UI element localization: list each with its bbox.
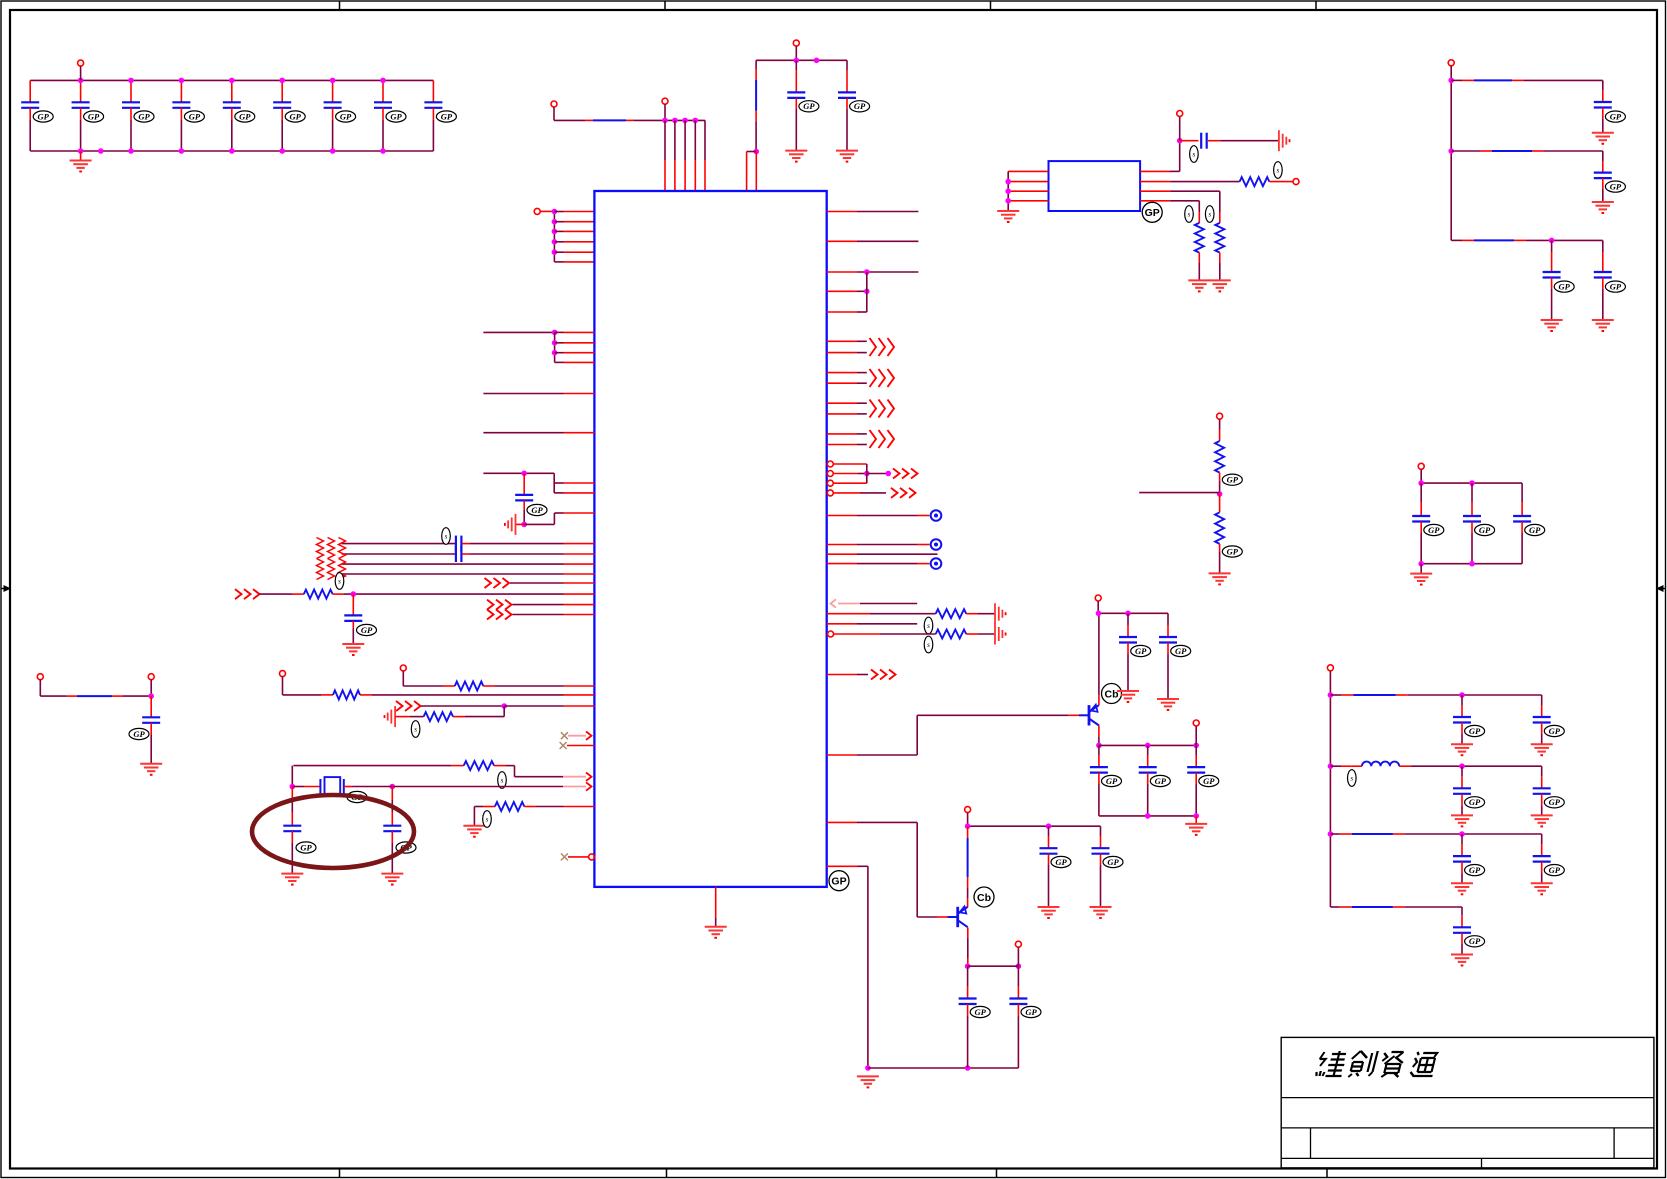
svg-text:s: s [414, 726, 417, 734]
svg-text:s: s [486, 816, 489, 824]
svg-text:GP: GP [138, 111, 150, 121]
svg-text:GP: GP [300, 842, 312, 852]
svg-text:Cb: Cb [977, 892, 991, 904]
svg-text:GP: GP [340, 111, 352, 121]
svg-text:GP: GP [1610, 111, 1622, 121]
svg-text:GP: GP [38, 111, 50, 121]
svg-text:GP: GP [531, 505, 543, 515]
svg-text:GP: GP [1559, 281, 1571, 291]
svg-text:GP: GP [1479, 525, 1491, 535]
svg-text:GP: GP [390, 111, 402, 121]
svg-text:GP: GP [975, 1007, 987, 1017]
svg-text:GP: GP [441, 111, 453, 121]
svg-text:s: s [1350, 775, 1353, 783]
svg-text:GP: GP [189, 111, 201, 121]
svg-text:GP: GP [1135, 646, 1147, 656]
svg-text:GP: GP [1549, 797, 1561, 807]
svg-text:s: s [445, 533, 448, 541]
svg-text:GP: GP [1549, 726, 1561, 736]
svg-text:GP: GP [1469, 936, 1481, 946]
svg-text:s: s [501, 777, 504, 785]
svg-text:GP: GP [239, 111, 251, 121]
svg-text:GP: GP [1025, 1007, 1037, 1017]
svg-text:GP: GP [803, 101, 815, 111]
svg-text:GP: GP [1107, 857, 1119, 867]
svg-text:GP: GP [1106, 776, 1118, 786]
svg-text:GP: GP [1203, 776, 1215, 786]
svg-text:GP: GP [88, 111, 100, 121]
svg-text:GP: GP [854, 101, 866, 111]
svg-text:GP: GP [1549, 865, 1561, 875]
svg-text:GP: GP [290, 111, 302, 121]
svg-text:GP: GP [1610, 281, 1622, 291]
svg-text:GP: GP [1610, 181, 1622, 191]
svg-text:GP: GP [1469, 865, 1481, 875]
svg-text:s: s [338, 578, 341, 586]
svg-text:GP: GP [1469, 726, 1481, 736]
svg-text:GP: GP [361, 625, 373, 635]
svg-text:GP: GP [1055, 857, 1067, 867]
svg-text:s: s [1188, 211, 1191, 219]
svg-text:GP: GP [1428, 525, 1440, 535]
svg-text:GP: GP [1175, 646, 1187, 656]
svg-text:GP: GP [1227, 475, 1239, 485]
svg-text:s: s [927, 622, 930, 630]
svg-text:s: s [927, 641, 930, 649]
svg-text:s: s [1277, 167, 1280, 175]
svg-text:s: s [1193, 151, 1196, 159]
svg-text:GP: GP [831, 876, 846, 888]
svg-text:Cb: Cb [1105, 688, 1119, 700]
svg-text:GP: GP [1529, 525, 1541, 535]
svg-text:s: s [1208, 211, 1211, 219]
svg-text:GP: GP [1155, 776, 1167, 786]
svg-text:GP: GP [1469, 797, 1481, 807]
svg-text:GP: GP [1227, 546, 1239, 556]
svg-text:GP: GP [1145, 207, 1160, 219]
svg-text:GP: GP [133, 729, 145, 739]
